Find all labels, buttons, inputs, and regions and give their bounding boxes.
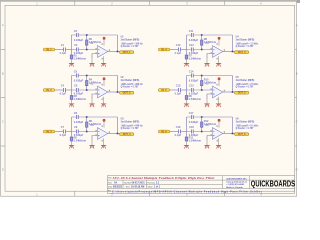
op-amp U5 bbox=[205, 83, 224, 98]
wire C4 to node spine bbox=[66, 89, 71, 91]
svg-text:IN_6: IN_6 bbox=[161, 130, 167, 133]
svg-text:QUICKBOARDS INC.: QUICKBOARDS INC. bbox=[226, 178, 247, 181]
svg-text:Made in Canada: Made in Canada bbox=[226, 187, 243, 189]
svg-text:C15: C15 bbox=[189, 84, 194, 88]
svg-text:C: C bbox=[2, 120, 4, 124]
svg-text:C7: C7 bbox=[61, 125, 65, 129]
power flag VCC above U4 bbox=[218, 37, 221, 46]
capacitor C1 (series input cap) bbox=[60, 43, 67, 55]
page background bbox=[0, 0, 300, 198]
svg-text:0.1µF: 0.1µF bbox=[60, 51, 67, 55]
capacitor C8 (feedback cap, top branch) bbox=[74, 111, 84, 124]
wire top feedback branch bbox=[72, 116, 118, 118]
note text block stage 4 bbox=[236, 35, 260, 48]
svg-text:IN_4: IN_4 bbox=[161, 48, 167, 51]
svg-text:0.033µF: 0.033µF bbox=[74, 38, 84, 42]
wire C13 to node spine bbox=[181, 89, 186, 91]
wire op-amp output bbox=[223, 91, 235, 93]
capacitor C15 (to inverting input) bbox=[189, 84, 199, 96]
wire input port to C13 bbox=[170, 89, 179, 91]
capacitor C4 (series input cap) bbox=[60, 84, 67, 96]
wire node spine vertical bbox=[186, 117, 188, 137]
capacitor C13 (series input cap) bbox=[175, 84, 182, 96]
svg-text:09-017-2021: 09-017-2021 bbox=[132, 182, 146, 184]
capacitor C3 (to inverting input) bbox=[74, 43, 84, 55]
filter stage 4, channel 4 (right column, row 1) bbox=[158, 29, 259, 67]
ground at non-inverting input bbox=[91, 59, 93, 63]
wire feedback vertical bbox=[117, 117, 119, 134]
input port IN_1 bbox=[43, 48, 54, 51]
wire feedback vertical bbox=[232, 76, 234, 93]
svg-text:C17: C17 bbox=[189, 111, 194, 115]
zone tick right y97 bbox=[295, 97, 297, 99]
wire feedback vertical bbox=[117, 76, 119, 93]
sheet outer border bbox=[1, 1, 297, 196]
power flag VCC above U3 bbox=[103, 119, 106, 128]
wire middle branch to op-amp inverting input bbox=[187, 131, 213, 133]
title block h-line under size row bbox=[107, 183, 222, 185]
wire op-amp output bbox=[223, 133, 235, 135]
ground at non-inverting input bbox=[206, 99, 208, 103]
wire top feedback branch bbox=[187, 34, 233, 36]
capacitor C18 (to inverting input) bbox=[189, 125, 199, 137]
node junction middle branch bbox=[86, 131, 88, 133]
svg-text:0.033µF: 0.033µF bbox=[74, 120, 84, 124]
svg-text:OUT_4: OUT_4 bbox=[238, 51, 246, 54]
wire op-amp output bbox=[108, 51, 120, 53]
svg-text:-3dB cutoff = 2.5 kHz: -3dB cutoff = 2.5 kHz bbox=[236, 83, 260, 86]
svg-text:0.033µF: 0.033µF bbox=[189, 79, 199, 83]
resistor R1 (shunt to ground) bbox=[70, 54, 87, 61]
title block v-line logo bbox=[249, 176, 251, 189]
svg-text:-3dB cutoff = 320 Hz: -3dB cutoff = 320 Hz bbox=[121, 83, 144, 86]
note text block stage 2 bbox=[121, 77, 144, 89]
power flag VCC above U6 bbox=[218, 119, 221, 128]
svg-text:www.quickboards.io: www.quickboards.io bbox=[226, 181, 247, 183]
zone tick top x150 bbox=[149, 1, 151, 5]
node junction middle branch bbox=[201, 49, 203, 51]
note text block stage 6 bbox=[236, 118, 260, 130]
output port OUT_3 bbox=[119, 133, 133, 136]
wire C10 to node spine bbox=[181, 49, 186, 51]
power flag VCC above U5 bbox=[218, 77, 221, 86]
wire op-amp non-inverting input to ground bbox=[92, 94, 97, 99]
svg-text:Number: Number bbox=[124, 182, 131, 184]
title block v-line company bbox=[222, 176, 224, 189]
company info text block bbox=[226, 178, 247, 189]
node junction top branch bbox=[86, 34, 88, 36]
window top edge bbox=[0, 0, 300, 1]
svg-text:-3dB cutoff = 160 Hz: -3dB cutoff = 160 Hz bbox=[121, 42, 144, 45]
ground at op-amp V- pin bbox=[101, 56, 106, 66]
wire top feedback branch bbox=[187, 75, 233, 77]
title block h-line under title row bbox=[107, 179, 294, 181]
node junction at output bbox=[232, 51, 234, 53]
svg-text:Q Factor = 0.707: Q Factor = 0.707 bbox=[121, 45, 140, 48]
input port IN_4 bbox=[158, 48, 169, 51]
svg-text:C14: C14 bbox=[189, 69, 194, 73]
capacitor C9 (to inverting input) bbox=[74, 125, 84, 137]
wire input port to C4 bbox=[55, 89, 64, 91]
svg-text:0.033µF: 0.033µF bbox=[74, 79, 84, 83]
resistor R11 (shunt to ground) bbox=[185, 136, 202, 143]
capacitor C14 (feedback cap, top branch) bbox=[189, 69, 199, 82]
input port IN_5 bbox=[158, 89, 169, 92]
capacitor C6 (to inverting input) bbox=[74, 84, 84, 96]
zone tick bottom x225 bbox=[223, 191, 225, 196]
svg-text:Q Factor = 0.707: Q Factor = 0.707 bbox=[236, 86, 255, 89]
node junction top branch bbox=[201, 75, 203, 77]
output port OUT_2 bbox=[119, 91, 133, 94]
zone tick top x75 bbox=[74, 1, 76, 5]
svg-text:C18: C18 bbox=[189, 125, 194, 129]
resistor 12 (feedback resistor between branches) bbox=[201, 118, 217, 131]
ground at non-inverting input bbox=[91, 99, 93, 103]
wire input port to C16 bbox=[170, 131, 179, 133]
wire C1 to node spine bbox=[66, 49, 71, 51]
svg-text:0.1µF: 0.1µF bbox=[175, 51, 182, 55]
wire top feedback branch bbox=[72, 34, 118, 36]
note text block stage 5 bbox=[236, 77, 260, 89]
svg-text:1.54Mohm: 1.54Mohm bbox=[74, 138, 87, 142]
svg-text:A: A bbox=[296, 23, 298, 27]
svg-text:0.033µF: 0.033µF bbox=[189, 38, 199, 42]
wire feedback vertical bbox=[117, 35, 119, 52]
ground below R9 bbox=[186, 100, 188, 104]
svg-text:2nd Butter (MFB): 2nd Butter (MFB) bbox=[236, 79, 255, 82]
svg-text:2nd Butter (MFB): 2nd Butter (MFB) bbox=[236, 120, 255, 123]
title block v-line revision bbox=[146, 180, 148, 188]
zone tick left y146 bbox=[1, 145, 5, 147]
resistor R5 (shunt to ground) bbox=[70, 136, 87, 143]
node junction at output bbox=[232, 91, 234, 93]
svg-text:C3: C3 bbox=[74, 43, 78, 47]
zone tick right y146 bbox=[295, 145, 297, 147]
wire middle branch to op-amp inverting input bbox=[72, 131, 98, 133]
ground at op-amp V- pin bbox=[216, 97, 221, 107]
output port OUT_4 bbox=[234, 51, 248, 54]
svg-text:C:\Users\quick\Projects\MFB-HP: C:\Users\quick\Projects\MFB-HP6\6-Channe… bbox=[112, 190, 263, 193]
svg-text:-3dB cutoff = 640 Hz: -3dB cutoff = 640 Hz bbox=[121, 124, 144, 127]
wire op-amp non-inverting input to ground bbox=[92, 54, 97, 59]
scrollbar top-right block bbox=[297, 0, 300, 3]
title block h-line under date row bbox=[107, 188, 294, 190]
svg-text:B: B bbox=[296, 71, 298, 75]
capacitor C12 (to inverting input) bbox=[189, 43, 199, 55]
capacitor C11 (feedback cap, top branch) bbox=[189, 29, 199, 42]
svg-text:Revision: Revision bbox=[148, 182, 156, 184]
wire op-amp non-inverting input to ground bbox=[207, 54, 212, 59]
ground at op-amp V- pin bbox=[101, 97, 106, 107]
capacitor C5 (feedback cap, top branch) bbox=[74, 69, 84, 82]
wire node spine vertical bbox=[71, 76, 73, 96]
wire node spine vertical bbox=[71, 35, 73, 55]
node junction at output bbox=[117, 91, 119, 93]
output port OUT_1 bbox=[119, 51, 133, 54]
ground below R11 bbox=[186, 141, 188, 145]
svg-text:C12: C12 bbox=[189, 43, 194, 47]
node junction top branch bbox=[201, 34, 203, 36]
svg-text:2nd Butter (MFB): 2nd Butter (MFB) bbox=[121, 120, 140, 123]
svg-text:OUT_2: OUT_2 bbox=[123, 92, 131, 95]
resistor 6 (feedback resistor between branches) bbox=[86, 118, 102, 131]
ground at op-amp V- pin bbox=[216, 138, 221, 148]
svg-text:0.1µF: 0.1µF bbox=[60, 91, 67, 95]
svg-text:2nd Butter (MFB): 2nd Butter (MFB) bbox=[121, 38, 140, 41]
svg-text:Sheet: Sheet bbox=[148, 185, 154, 188]
capacitor C10 (series input cap) bbox=[175, 43, 182, 55]
zone tick top x225 bbox=[223, 1, 225, 5]
svg-text:C: C bbox=[296, 120, 298, 124]
svg-text:C6: C6 bbox=[74, 84, 78, 88]
svg-text:C1: C1 bbox=[61, 43, 65, 47]
power flag VCC above U2 bbox=[103, 77, 106, 86]
title block outline bbox=[107, 176, 294, 194]
svg-text:C16: C16 bbox=[176, 125, 181, 129]
output port OUT_5 bbox=[234, 91, 248, 94]
svg-text:Q Factor = 0.707: Q Factor = 0.707 bbox=[236, 127, 255, 130]
op-amp U2 bbox=[90, 83, 109, 98]
svg-text:1.54Mohm: 1.54Mohm bbox=[189, 138, 202, 142]
svg-text:C11: C11 bbox=[189, 29, 194, 33]
capacitor C7 (series input cap) bbox=[60, 125, 67, 137]
resistor R3 (shunt to ground) bbox=[70, 94, 87, 101]
ground below R1 bbox=[71, 59, 73, 63]
node junction at output bbox=[117, 133, 119, 135]
wire node spine vertical bbox=[186, 35, 188, 55]
svg-text:IN_5: IN_5 bbox=[161, 89, 167, 92]
zone tick left y97 bbox=[1, 97, 5, 99]
svg-text:C4: C4 bbox=[61, 84, 65, 88]
resistor R9 (shunt to ground) bbox=[185, 94, 202, 101]
wire feedback vertical bbox=[232, 117, 234, 134]
wire op-amp non-inverting input to ground bbox=[92, 136, 97, 141]
ground at non-inverting input bbox=[206, 59, 208, 63]
svg-text:-3dB cutoff = 1.2 kHz: -3dB cutoff = 1.2 kHz bbox=[236, 42, 260, 45]
svg-text:C8: C8 bbox=[74, 111, 78, 115]
power flag VCC above U1 bbox=[103, 37, 106, 46]
title block v-line number bbox=[122, 180, 124, 188]
node junction middle branch bbox=[201, 131, 203, 133]
input port IN_3 bbox=[43, 130, 54, 133]
node junction top branch bbox=[201, 116, 203, 118]
input port IN_2 bbox=[43, 89, 54, 92]
svg-text:Q Factor = 0.707: Q Factor = 0.707 bbox=[121, 127, 140, 130]
svg-text:1.54Mohm: 1.54Mohm bbox=[189, 97, 202, 101]
svg-text:QUICKBOARDS: QUICKBOARDS bbox=[251, 180, 296, 189]
op-amp U3 bbox=[90, 124, 109, 139]
wire input port to C1 bbox=[55, 49, 64, 51]
svg-text:OUT_5: OUT_5 bbox=[238, 92, 246, 95]
node junction middle branch bbox=[86, 89, 88, 91]
node junction top branch bbox=[86, 75, 88, 77]
svg-text:Q Factor = 0.707: Q Factor = 0.707 bbox=[236, 45, 255, 48]
wire top feedback branch bbox=[187, 116, 233, 118]
op-amp U4 bbox=[205, 42, 224, 57]
zone tick right y49 bbox=[295, 48, 297, 50]
node junction at output bbox=[117, 51, 119, 53]
svg-text:C5: C5 bbox=[74, 69, 78, 73]
svg-text:B: B bbox=[2, 71, 4, 75]
ground at non-inverting input bbox=[206, 141, 208, 145]
svg-text:D: D bbox=[296, 168, 298, 172]
wire op-amp output bbox=[223, 51, 235, 53]
filter stage 1, channel 1 (left column, row 1) bbox=[43, 29, 143, 67]
wire middle branch to op-amp inverting input bbox=[72, 49, 98, 51]
wire op-amp output bbox=[108, 133, 120, 135]
svg-text:C2: C2 bbox=[74, 29, 78, 33]
note text block stage 1 bbox=[121, 36, 144, 48]
svg-text:8/3/2023: 8/3/2023 bbox=[113, 186, 123, 188]
svg-text:OUT_6: OUT_6 bbox=[238, 133, 246, 136]
ground below R3 bbox=[71, 100, 73, 104]
capacitor C17 (feedback cap, top branch) bbox=[189, 111, 199, 124]
ground at non-inverting input bbox=[91, 141, 93, 145]
filter stage 6, channel 6 (right column, row 3) bbox=[158, 111, 259, 149]
svg-text:10:42:18 AM: 10:42:18 AM bbox=[131, 185, 144, 188]
ground at op-amp V- pin bbox=[101, 138, 106, 148]
ground below R7 bbox=[186, 59, 188, 63]
wire middle branch to op-amp inverting input bbox=[187, 49, 213, 51]
output port OUT_6 bbox=[234, 133, 248, 136]
svg-text:D: D bbox=[2, 168, 4, 172]
wire node spine vertical bbox=[71, 117, 73, 137]
svg-text:IN_1: IN_1 bbox=[46, 48, 52, 51]
sheet inner border bbox=[5, 5, 295, 191]
svg-text:Q Factor = 0.707: Q Factor = 0.707 bbox=[121, 86, 140, 89]
filter stage 3, channel 3 (left column, row 3) bbox=[43, 111, 143, 149]
svg-text:0.1µF: 0.1µF bbox=[175, 133, 182, 137]
svg-text:2nd Butter (MFB): 2nd Butter (MFB) bbox=[236, 38, 255, 41]
wire node spine vertical bbox=[186, 76, 188, 96]
resistor 2 (feedback resistor between branches) bbox=[86, 36, 102, 49]
zone tick bottom x75 bbox=[74, 191, 76, 196]
svg-text:1.54Mohm: 1.54Mohm bbox=[74, 97, 87, 101]
capacitor C2 (feedback cap, top branch) bbox=[74, 29, 84, 42]
sheet background bbox=[0, 1, 297, 197]
node junction middle branch bbox=[86, 49, 88, 51]
wire middle branch to op-amp inverting input bbox=[187, 89, 213, 91]
svg-text:1.54Mohm: 1.54Mohm bbox=[74, 56, 87, 60]
resistor 4 (feedback resistor between branches) bbox=[86, 76, 102, 89]
capacitor C16 (series input cap) bbox=[175, 125, 182, 137]
svg-text:1 of 1: 1 of 1 bbox=[154, 186, 161, 188]
node junction at output bbox=[232, 133, 234, 135]
note text block stage 3 bbox=[121, 118, 144, 130]
svg-text:0.1µF: 0.1µF bbox=[60, 133, 67, 137]
svg-text:0.033µF: 0.033µF bbox=[189, 120, 199, 124]
svg-text:-3dB cutoff = 5.1 kHz: -3dB cutoff = 5.1 kHz bbox=[236, 124, 260, 127]
svg-text:C9: C9 bbox=[74, 125, 78, 129]
input port IN_6 bbox=[158, 130, 169, 133]
op-amp U1 bbox=[90, 42, 109, 57]
svg-text:1.54Mohm: 1.54Mohm bbox=[189, 56, 202, 60]
svg-text:C13: C13 bbox=[176, 84, 181, 88]
svg-text:OUT_1: OUT_1 bbox=[123, 51, 131, 54]
filter stage 5, channel 5 (right column, row 2) bbox=[158, 69, 259, 107]
wire input port to C7 bbox=[55, 131, 64, 133]
svg-text:IN_2: IN_2 bbox=[46, 89, 52, 92]
wire C7 to node spine bbox=[66, 131, 71, 133]
svg-text:A: A bbox=[2, 23, 4, 27]
ground at op-amp V- pin bbox=[216, 56, 221, 66]
svg-text:OUT_3: OUT_3 bbox=[123, 133, 131, 136]
wire op-amp non-inverting input to ground bbox=[207, 136, 212, 141]
wire top feedback branch bbox=[72, 75, 118, 77]
wire input port to C10 bbox=[170, 49, 179, 51]
resistor 8 (feedback resistor between branches) bbox=[201, 36, 217, 49]
wire middle branch to op-amp inverting input bbox=[72, 89, 98, 91]
op-amp U6 bbox=[205, 124, 224, 139]
node junction top branch bbox=[86, 116, 88, 118]
zone tick bottom x150 bbox=[149, 191, 151, 196]
svg-text:C10: C10 bbox=[176, 43, 181, 47]
node junction middle branch bbox=[201, 89, 203, 91]
zone tick left y49 bbox=[1, 48, 5, 50]
svg-text:0.1µF: 0.1µF bbox=[175, 91, 182, 95]
wire feedback vertical bbox=[232, 35, 234, 52]
svg-text:+1 (555) 010-4242: +1 (555) 010-4242 bbox=[226, 183, 244, 186]
wire op-amp non-inverting input to ground bbox=[207, 94, 212, 99]
wire C16 to node spine bbox=[181, 131, 186, 133]
filter stage 2, channel 2 (left column, row 2) bbox=[43, 69, 143, 107]
resistor 10 (feedback resistor between branches) bbox=[201, 76, 217, 89]
svg-text:2nd Butter (MFB): 2nd Butter (MFB) bbox=[121, 79, 140, 82]
wire op-amp output bbox=[108, 91, 120, 93]
resistor R7 (shunt to ground) bbox=[185, 54, 202, 61]
svg-text:IN_3: IN_3 bbox=[46, 130, 52, 133]
svg-text:SVL-09 6-Channel Multiple Feed: SVL-09 6-Channel Multiple Feedback Ellip… bbox=[113, 176, 216, 180]
ground below R5 bbox=[71, 141, 73, 145]
